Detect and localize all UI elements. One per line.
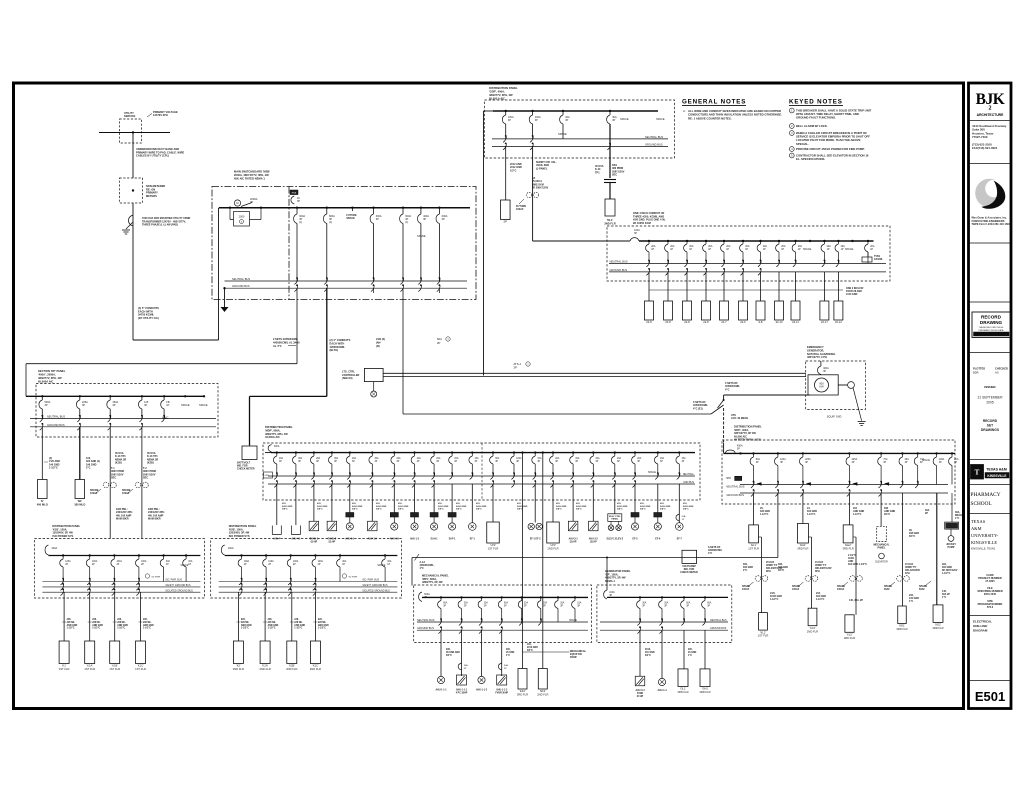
breaker tick MDP ground — [511, 481, 514, 487]
svg-text:480/277V, 3P, 4W: 480/277V, 3P, 4W — [422, 580, 443, 584]
title block consultant logo — [975, 179, 1004, 208]
load panel KL2 — [759, 613, 768, 631]
breaker tick EM neutral — [721, 260, 724, 266]
svg-text:60A: 60A — [686, 602, 691, 605]
breaker EM branch 4 — [705, 241, 707, 244]
node MDP tap 9 — [433, 451, 435, 453]
node EM tap 4 — [705, 240, 707, 242]
svg-text:22-12: 22-12 — [835, 320, 842, 324]
svg-text:30A: 30A — [484, 602, 489, 605]
svg-text:#10,: #10, — [282, 503, 287, 505]
device elevator control panel — [608, 514, 622, 522]
node EDP tap x849 — [848, 452, 850, 454]
breaker MP1 branch 3 — [481, 597, 483, 600]
svg-text:NEUTRAL: NEUTRAL — [683, 473, 695, 476]
svg-text:3RD FLR: 3RD FLR — [844, 636, 855, 640]
panel DP dashed enclosure — [36, 384, 218, 438]
svg-text:DRAWINGS: DRAWINGS — [981, 428, 1000, 432]
svg-text:2005: 2005 — [986, 401, 994, 405]
svg-text:2P: 2P — [268, 564, 271, 566]
node GDP tap x532 — [531, 110, 533, 112]
breaker MP1 main — [419, 592, 422, 602]
breaker MP1 branch 5 — [521, 597, 523, 600]
svg-text:480/277V, 3PH, 4W: 480/277V, 3PH, 4W — [489, 93, 513, 97]
breaker MDP branch 7 — [393, 453, 395, 456]
svg-text:3P: 3P — [577, 605, 580, 607]
svg-text:3/4"C: 3/4"C — [660, 508, 666, 511]
svg-text:(1): (1) — [405, 221, 408, 224]
svg-text:GROUND BUS: GROUND BUS — [645, 143, 663, 147]
svg-text:W/ 4#350 KCM: W/ 4#350 KCM — [633, 221, 651, 225]
svg-text:SPACE: SPACE — [180, 564, 188, 567]
svg-text:AL 4"C: AL 4"C — [273, 344, 282, 348]
bus GP ground — [600, 629, 728, 631]
node MP1 tap 8 — [574, 596, 576, 598]
svg-text:RE: 1 ABOVE COUNTER NOTES.: RE: 1 ABOVE COUNTER NOTES. — [688, 116, 732, 120]
load EM feeder 2 — [664, 301, 673, 320]
bus EDP main — [724, 452, 955, 454]
bus DP ground — [30, 426, 216, 428]
breaker tick EM neutral — [776, 260, 779, 266]
breaker MDP branch 21 — [678, 453, 680, 456]
node DP tap x42 — [41, 395, 43, 397]
svg-text:TP1: TP1 — [595, 171, 600, 174]
node MDP tap 17 — [592, 451, 594, 453]
breaker DP 150A — [109, 396, 111, 400]
wire MDP drop 17 — [592, 484, 594, 521]
svg-text:PDB: PDB — [292, 193, 297, 195]
breaker MP1 branch 8 — [574, 597, 576, 600]
svg-text:ELEV-1 ELEV-2: ELEV-1 ELEV-2 — [607, 539, 624, 541]
breaker tick MDP neutral — [533, 473, 536, 479]
svg-text:1ST FLR: 1ST FLR — [748, 547, 759, 551]
svg-text:60AF: 60AF — [919, 588, 925, 591]
svg-text:CHECKED: CHECKED — [995, 367, 1008, 371]
starter MDP black box and motor — [448, 513, 456, 518]
breaker tick EM ground — [665, 269, 668, 275]
switch MSB service disconnect — [241, 203, 252, 207]
load panel 'LP2' — [487, 522, 500, 543]
breaker tick EM neutral — [822, 260, 825, 266]
svg-text:3P: 3P — [682, 461, 685, 463]
breaker K1B branch 4 — [138, 556, 140, 560]
svg-text:GND BUS: GND BUS — [683, 481, 694, 484]
note MP1 branch bkr 1 — [458, 663, 461, 670]
load panel 'K2C' — [310, 641, 320, 664]
breaker tick K1B 4 — [136, 579, 139, 585]
breaker K2B branch 6 — [384, 556, 386, 560]
svg-text:2#10 GND: 2#10 GND — [476, 506, 487, 508]
breaker tick GP ground — [637, 627, 640, 633]
breaker tick EM neutral — [684, 260, 687, 266]
node MP1 tap 3 — [480, 596, 482, 598]
svg-text:100A: 100A — [268, 560, 274, 563]
svg-text:'K1C': 'K1C' — [137, 664, 144, 668]
svg-text:4#350KCMIL AL 3#4/0: 4#350KCMIL AL 3#4/0 — [273, 340, 300, 344]
svg-text:3P: 3P — [537, 461, 540, 463]
svg-text:1P: 1P — [342, 564, 345, 566]
bus EM main — [639, 240, 874, 242]
svg-text:100A: 100A — [65, 560, 71, 563]
wire MDP drop 18 — [614, 484, 616, 514]
keyed note 4 — [789, 147, 794, 152]
wire K1B load drop 2 — [89, 592, 91, 641]
svg-text:3/4"C: 3/4"C — [909, 535, 915, 538]
bus MSB main — [219, 207, 470, 209]
svg-text:2ND FLR: 2ND FLR — [547, 547, 558, 551]
breaker tick MDP neutral — [490, 473, 493, 479]
svg-text:AHU-4: AHU-4 — [273, 538, 281, 541]
svg-text:2#10 GND: 2#10 GND — [640, 506, 651, 508]
breaker tick K1B 1 — [61, 579, 64, 585]
svg-text:#10 GND: #10 GND — [645, 652, 655, 654]
svg-text:'E': 'E' — [41, 499, 44, 503]
svg-text:#10,: #10, — [456, 503, 461, 505]
wire MDP drop 5 — [349, 484, 351, 513]
node MDP tap 20 — [657, 451, 659, 453]
bus DP main — [26, 395, 204, 397]
node utility tap — [132, 131, 134, 133]
svg-text:EQUIP. GND: EQUIP. GND — [827, 416, 842, 419]
breaker EM branch 11 — [823, 241, 825, 244]
svg-text:2P: 2P — [293, 564, 296, 566]
svg-text:3/4"C: 3/4"C — [556, 508, 562, 511]
svg-text:1-1/2"C: 1-1/2"C — [143, 628, 151, 630]
svg-text:60A: 60A — [443, 602, 448, 605]
node K2B tap 6 — [384, 554, 386, 556]
breaker tick DP neutral — [40, 416, 43, 422]
load EM feeder 1 — [645, 301, 654, 320]
svg-text:1ST FLR: 1ST FLR — [109, 667, 120, 671]
svg-text:480/277V, 3PH, 4W: 480/277V, 3PH, 4W — [38, 376, 62, 380]
node EDP entry — [739, 452, 741, 454]
svg-text:1ST FLR: 1ST FLR — [488, 547, 499, 551]
svg-text:(BY UTILITY CO.): (BY UTILITY CO.) — [138, 316, 159, 320]
breaker K2B branch 4 — [314, 556, 316, 560]
svg-text:2#8 NE.: 2#8 NE. — [117, 622, 126, 624]
svg-text:SEC: SEC — [612, 174, 617, 177]
svg-text:1P: 1P — [387, 564, 390, 566]
breaker EDP 70A — [917, 453, 919, 457]
breaker tick MDP neutral — [612, 473, 615, 479]
node EDP tap x936 — [935, 452, 937, 454]
breaker EM branch 8 — [778, 241, 780, 244]
svg-text:1P: 1P — [670, 248, 673, 251]
breaker tick MDP neutral — [571, 473, 574, 479]
svg-text:3RD FLR: 3RD FLR — [517, 693, 528, 697]
svg-text:3P: 3P — [475, 461, 478, 463]
bus GDP main — [493, 110, 658, 112]
svg-text:1ST FLR: 1ST FLR — [59, 667, 70, 671]
svg-text:EAH-1: EAH-1 — [431, 538, 439, 541]
svg-text:AHU-1-1-1: AHU-1-1-1 — [456, 689, 468, 692]
breaker GP branch 3 — [683, 597, 685, 600]
breaker tick MDP neutral — [470, 473, 473, 479]
svg-text:#10,: #10, — [683, 503, 688, 505]
svg-text:3P: 3P — [575, 461, 578, 463]
svg-text:100AF: 100AF — [516, 208, 524, 211]
node MDP tap 13 — [513, 451, 515, 453]
breaker DP 125 — [141, 396, 143, 400]
breaker K2B branch 3 — [290, 556, 292, 560]
motor load MDP — [469, 523, 477, 531]
breaker EDP 225A — [802, 453, 804, 457]
breaker EDP 100A — [936, 453, 938, 457]
svg-text:1-1/2"C: 1-1/2"C — [770, 598, 779, 601]
svg-text:#10,: #10, — [517, 503, 522, 505]
node MDP tap 4 — [331, 451, 333, 453]
svg-text:2"C: 2"C — [86, 467, 91, 470]
wire GP drop 4 — [704, 630, 706, 669]
breaker tick EDP neutral — [775, 482, 778, 488]
breaker MDP branch 17 — [592, 453, 594, 456]
node EM tap 13 — [851, 240, 853, 242]
ground MSB — [221, 307, 229, 312]
wire EF shared conduit line — [523, 651, 570, 653]
svg-text:NEUTRAL BUS: NEUTRAL BUS — [610, 259, 628, 263]
node MDP tap 15 — [552, 451, 554, 453]
svg-text:3P: 3P — [883, 461, 886, 464]
breaker MDP branch 6 — [371, 453, 373, 456]
svg-text:1ST FLR: 1ST FLR — [758, 634, 769, 638]
bus MDP ground — [268, 483, 695, 485]
node metering — [132, 189, 134, 191]
svg-text:AHU-1-3: AHU-1-3 — [390, 538, 400, 541]
svg-text:2ND FLR: 2ND FLR — [310, 667, 321, 671]
svg-text:'MDP', 600A,: 'MDP', 600A, — [265, 428, 281, 432]
svg-text:30A: 30A — [575, 457, 580, 460]
breaker tick DP neutral — [77, 416, 80, 422]
svg-text:1ST FLR: 1ST FLR — [135, 667, 146, 671]
svg-text:3P: 3P — [352, 461, 355, 463]
wire EM shared conduit line — [649, 289, 843, 291]
svg-text:GENERAL NOTES: GENERAL NOTES — [682, 99, 746, 106]
svg-text:2#10 GND: 2#10 GND — [617, 506, 628, 508]
svg-text:CABLES BY UTILITY (CPL): CABLES BY UTILITY (CPL) — [136, 154, 169, 158]
node MSB bus tap x352 — [351, 207, 353, 209]
divider MDP sections — [481, 443, 483, 500]
svg-text:#6 GND: #6 GND — [506, 652, 515, 654]
svg-text:'KL3': 'KL3' — [810, 626, 816, 630]
fused switch T2 — [135, 482, 141, 488]
starter MDP black box and motor — [390, 513, 398, 518]
svg-text:2000: 2000 — [239, 215, 245, 219]
label PDB — [290, 190, 298, 195]
node K1B tap 1 — [62, 554, 64, 556]
svg-text:BELL ALARM W/ LOCK.: BELL ALARM W/ LOCK. — [796, 124, 828, 128]
bus EM ground — [609, 271, 886, 273]
svg-text:#10,: #10, — [438, 503, 443, 505]
svg-text:1P: 1P — [166, 404, 169, 407]
svg-text:20A: 20A — [660, 457, 665, 460]
svg-text:2P: 2P — [117, 564, 120, 566]
svg-text:120/208: 120/208 — [874, 259, 883, 261]
svg-text:1PH: 1PH — [905, 572, 910, 575]
svg-text:'LP3': 'LP3' — [550, 543, 556, 547]
svg-text:100A: 100A — [318, 560, 324, 563]
bus K1B main — [48, 555, 200, 557]
svg-text:#10,: #10, — [317, 503, 322, 505]
breaker tick MP1 neutral — [538, 619, 541, 625]
svg-text:15A: 15A — [475, 457, 480, 460]
breaker MSB 600A — [438, 208, 440, 214]
svg-text:20A: 20A — [397, 457, 402, 460]
node EM tap 12 — [837, 240, 839, 242]
svg-text:1-1/2"C: 1-1/2"C — [49, 467, 58, 470]
svg-text:'K1A': 'K1A' — [87, 664, 94, 668]
breaker tick K2B 1 — [239, 579, 242, 585]
breaker tick MP1 ground — [459, 627, 462, 633]
load MDP disconnect hatched — [309, 521, 319, 531]
breaker GP main — [604, 590, 607, 599]
svg-text:E501 2045: E501 2045 — [984, 593, 997, 596]
svg-text:NEUTRAL BUS: NEUTRAL BUS — [47, 415, 65, 419]
svg-text:#10,: #10, — [476, 503, 481, 505]
svg-text:3P: 3P — [508, 119, 511, 122]
svg-text:3P: 3P — [45, 404, 48, 407]
svg-text:1"C: 1"C — [909, 600, 913, 603]
load GDP spare panel — [501, 200, 511, 220]
breaker tick MDP neutral — [632, 473, 635, 479]
svg-text:'EH1': 'EH1' — [800, 543, 807, 547]
load EM feeder 9 — [791, 301, 800, 320]
breaker tick K1B 3 — [112, 579, 115, 585]
wire feeder MSB to ATS2 — [403, 413, 711, 415]
svg-text:2#8 NE.: 2#8 NE. — [241, 622, 250, 624]
breaker tick EDP neutral — [900, 482, 903, 488]
svg-text:'GDP', 400A,: 'GDP', 400A, — [489, 90, 505, 94]
device EDP SPD — [735, 476, 742, 480]
svg-text:(BLTG): (BLTG) — [330, 348, 339, 352]
svg-text:EAHU-1: EAHU-1 — [310, 538, 319, 541]
svg-text:AND GND: AND GND — [117, 624, 128, 627]
svg-text:2#10 GND: 2#10 GND — [556, 506, 567, 508]
svg-text:2"C: 2"C — [743, 569, 747, 572]
svg-text:22-17: 22-17 — [821, 320, 828, 324]
svg-text:2#10 GND: 2#10 GND — [317, 506, 328, 508]
breaker MSB 800A — [326, 208, 328, 214]
breaker tick DP neutral — [162, 416, 165, 422]
svg-text:2#10 GND: 2#10 GND — [456, 506, 467, 508]
svg-text:3P: 3P — [609, 594, 612, 597]
load MDP disconnect hatched — [368, 521, 378, 531]
svg-text:2#8,: 2#8, — [268, 619, 273, 621]
wire MP1 drop x501 — [501, 630, 503, 676]
wire MDP drop EF2 — [522, 453, 524, 669]
load panel 'K2' — [233, 641, 243, 664]
starter MDP black box and motor — [631, 513, 639, 518]
wire DP drop2 — [79, 427, 81, 480]
svg-text:3P: 3P — [543, 605, 546, 607]
svg-text:30A: 30A — [298, 457, 303, 460]
device generator annunciator — [848, 382, 855, 389]
wire EDP drop EH2 — [848, 493, 850, 525]
breaker tick K2B 2 — [264, 579, 267, 585]
breaker tick MDP neutral — [655, 473, 658, 479]
bus MP1 ground — [417, 629, 588, 631]
breaker tick MSB neutral — [294, 278, 297, 284]
arrow EDP neutral — [852, 482, 857, 485]
bus K2B iso power — [219, 581, 398, 583]
svg-text:22-11: 22-11 — [792, 320, 799, 324]
svg-text:3/4"C: 3/4"C — [476, 508, 482, 511]
svg-text:1ST FLR: 1ST FLR — [84, 667, 95, 671]
breaker EM branch 3 — [686, 241, 688, 244]
wire EDP drop mech panel — [880, 493, 882, 526]
svg-text:2#10 GND: 2#10 GND — [438, 506, 449, 508]
breaker EM branch 7 — [760, 241, 762, 244]
svg-text:65K AIC RATED NEMA 1: 65K AIC RATED NEMA 1 — [234, 176, 265, 180]
svg-text:TEXAS A&M: TEXAS A&M — [986, 468, 1007, 472]
svg-text:(1): (1) — [329, 221, 332, 224]
load panel 'K1' — [59, 641, 69, 664]
starter MDP black box and motor — [411, 513, 419, 518]
node MDP tap 8 — [413, 451, 415, 453]
svg-text:20A: 20A — [617, 457, 622, 460]
svg-text:#10,: #10, — [352, 503, 357, 505]
breaker DP 225A — [79, 396, 81, 400]
node EDP tap x777 — [777, 452, 779, 454]
motor load MDP — [676, 523, 684, 531]
svg-text:3P: 3P — [905, 461, 908, 464]
breaker MDP branch 15 — [552, 453, 554, 456]
breaker tick MDP neutral — [677, 473, 680, 479]
breaker tick EM ground — [740, 269, 743, 275]
device MDP check meter — [242, 446, 257, 460]
load panel GP rect1 — [678, 669, 688, 687]
node MSB bus tap x439 — [438, 207, 440, 209]
breaker tick MDP ground — [632, 481, 635, 487]
node EDP tap x881 — [880, 452, 882, 454]
node MP1 tap 4 — [501, 596, 503, 598]
svg-text:FAX(713) 621-0021: FAX(713) 621-0021 — [972, 146, 998, 150]
svg-text:3P: 3P — [617, 461, 620, 463]
breaker MDP branch 18 — [614, 453, 616, 456]
svg-text:3/4"C: 3/4"C — [456, 508, 462, 511]
svg-text:1-1/4"C: 1-1/4"C — [853, 513, 862, 516]
svg-text:3/4"C: 3/4"C — [640, 508, 646, 511]
load EM feeder 4 — [702, 301, 711, 320]
breaker MDP branch 11 — [471, 453, 473, 456]
svg-text:30A: 30A — [464, 664, 468, 667]
breaker K2B main — [221, 545, 224, 555]
wire utility riser to MSB — [133, 339, 219, 341]
wire MDP drop 11 — [471, 484, 473, 523]
svg-text:GENERATOR,: GENERATOR, — [807, 348, 824, 352]
svg-text:#10,: #10, — [640, 503, 645, 505]
breaker tick DP neutral — [108, 416, 111, 422]
svg-text:(5) HP: (5) HP — [311, 541, 318, 543]
svg-text:3RD FLR: 3RD FLR — [932, 626, 943, 630]
svg-text:AHU-1-4: AHU-1-4 — [657, 689, 667, 692]
svg-text:3/4"C: 3/4"C — [376, 508, 382, 511]
svg-text:RECORD: RECORD — [981, 315, 1002, 320]
node MDP tap 6 — [371, 451, 373, 453]
svg-text:60A: 60A — [707, 602, 712, 605]
breaker tick GDP ground — [503, 143, 506, 149]
wire K2B load drop 4 — [314, 592, 316, 641]
bus MP1 main — [422, 596, 588, 598]
breaker tick MSB ground — [324, 285, 327, 291]
bus K1B iso power — [42, 581, 200, 583]
node MDP tap 18 — [614, 451, 616, 453]
svg-text:SPACE: SPACE — [199, 403, 208, 407]
node EDP tap x902 — [901, 452, 903, 454]
wire MDP drop 1 — [276, 484, 278, 525]
svg-text:3P: 3P — [535, 119, 538, 122]
bus K2B main — [225, 555, 398, 557]
svg-text:M: M — [236, 201, 238, 205]
